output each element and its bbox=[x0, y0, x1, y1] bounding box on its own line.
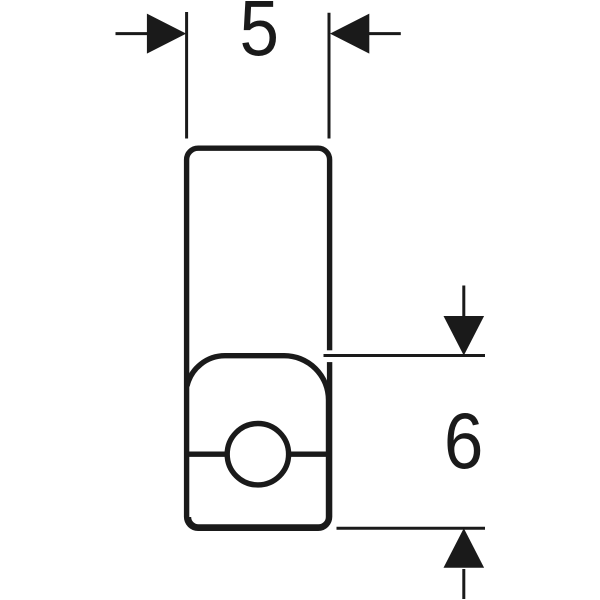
svg-text:6: 6 bbox=[444, 397, 484, 485]
svg-text:5: 5 bbox=[240, 0, 280, 72]
